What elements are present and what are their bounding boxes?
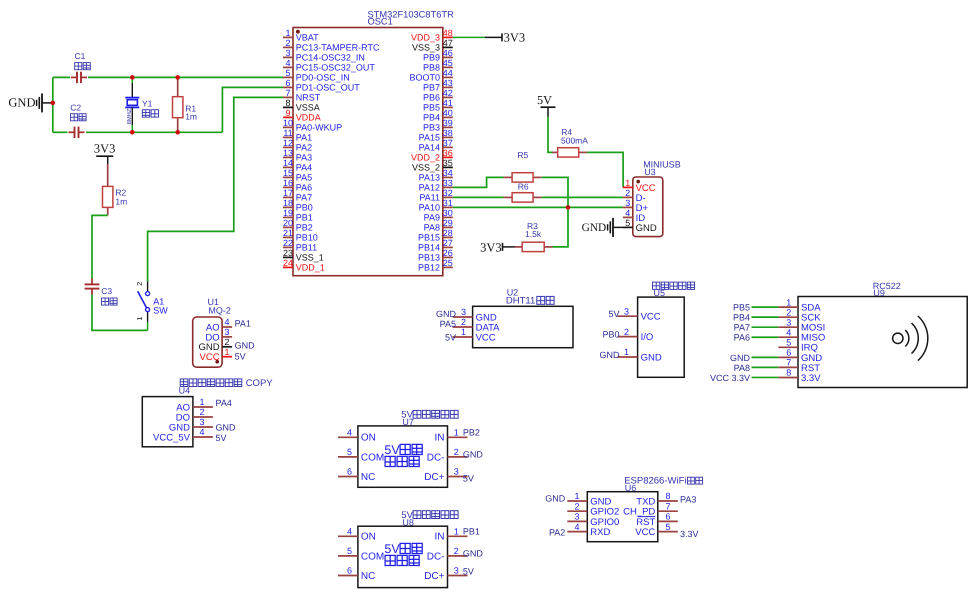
svg-text:43: 43 <box>443 78 453 88</box>
module U4 photoresistor 光敏电阻传感器 COPY <box>142 378 273 447</box>
svg-text:11: 11 <box>283 128 292 138</box>
svg-text:COM: COM <box>361 452 384 463</box>
svg-text:PB8: PB8 <box>423 63 440 73</box>
label C2 value 电容 <box>71 114 87 121</box>
pin 35 VSS_2 <box>412 158 453 173</box>
svg-text:28: 28 <box>443 228 453 238</box>
svg-text:1.5k: 1.5k <box>525 229 542 239</box>
pin 3 DC+ <box>424 566 467 582</box>
pin 1 VCC <box>453 327 496 343</box>
svg-text:PA6: PA6 <box>296 183 312 193</box>
svg-text:5V: 5V <box>384 443 400 457</box>
pin 4 RXD <box>567 522 610 538</box>
pin 5 VCC <box>635 522 678 538</box>
svg-text:33: 33 <box>443 178 453 188</box>
pin 17 PA7 <box>283 188 312 203</box>
svg-text:DC-: DC- <box>427 551 445 562</box>
svg-text:PB15: PB15 <box>418 233 440 243</box>
svg-text:ON: ON <box>361 433 376 444</box>
pin 39 PB3 <box>423 118 453 133</box>
svg-text:23: 23 <box>283 248 293 258</box>
svg-text:1m: 1m <box>115 196 127 206</box>
svg-text:PC14-OSC32_IN: PC14-OSC32_IN <box>296 53 365 63</box>
pin 43 PB7 <box>423 78 453 93</box>
svg-text:3: 3 <box>454 566 459 576</box>
junction <box>130 75 135 80</box>
pin 5 COM <box>338 546 384 562</box>
pin 4 ON <box>338 427 376 443</box>
svg-text:12: 12 <box>283 138 293 148</box>
title 蜂鸣器模块 <box>653 282 695 289</box>
svg-text:PA12: PA12 <box>419 183 440 193</box>
svg-text:PB11: PB11 <box>296 243 317 253</box>
svg-text:6: 6 <box>665 512 670 522</box>
svg-text:PB5: PB5 <box>423 103 440 113</box>
svg-text:GND: GND <box>436 309 457 319</box>
svg-text:PA8: PA8 <box>734 363 750 373</box>
svg-text:GND: GND <box>8 95 35 109</box>
wire C3 to switch bottom <box>92 295 148 331</box>
svg-text:16: 16 <box>283 178 293 188</box>
svg-text:19: 19 <box>283 208 293 218</box>
svg-text:PB6: PB6 <box>423 93 440 103</box>
svg-text:5V: 5V <box>384 542 400 556</box>
svg-text:45: 45 <box>443 58 453 68</box>
pin 1 SDA <box>778 297 821 313</box>
svg-text:VBAT: VBAT <box>296 33 319 43</box>
svg-text:PD1-OSC_OUT: PD1-OSC_OUT <box>296 83 361 93</box>
module U2 DHT11 <box>436 287 573 347</box>
svg-text:Y1: Y1 <box>142 98 153 108</box>
ground GND left power port <box>8 93 52 112</box>
pin 36 VDD_2 <box>411 148 453 163</box>
svg-text:1: 1 <box>624 347 629 357</box>
pin 28 PB15 <box>418 228 453 243</box>
svg-text:4: 4 <box>285 58 290 68</box>
svg-text:PB12: PB12 <box>418 263 440 273</box>
svg-text:PB0: PB0 <box>296 203 313 213</box>
svg-text:9: 9 <box>285 108 290 118</box>
pin 1 AO <box>176 397 213 413</box>
svg-text:3.3V: 3.3V <box>680 529 699 539</box>
module U7 relay 5V继电器模块 <box>338 410 483 488</box>
pin 7 CH_PD <box>623 501 678 517</box>
svg-text:41: 41 <box>443 98 453 108</box>
pin 18 PB0 <box>283 198 313 213</box>
wire VCC 3.3V to pin 8 <box>752 376 779 378</box>
svg-text:32: 32 <box>443 188 453 198</box>
svg-text:PA10: PA10 <box>419 203 440 213</box>
label C3 value 电容 <box>102 298 118 305</box>
capacitor C2 <box>69 127 85 138</box>
ground bars <box>37 93 42 112</box>
power port 3V3 top-left <box>94 141 116 164</box>
svg-text:2: 2 <box>199 407 204 417</box>
svg-text:VCC 3.3V: VCC 3.3V <box>710 373 750 383</box>
svg-text:17: 17 <box>283 188 293 198</box>
pin 47 VSS_3 <box>412 38 453 53</box>
wire PA10 to D+ <box>453 206 623 208</box>
svg-text:40: 40 <box>443 108 453 118</box>
junction <box>130 130 135 135</box>
svg-text:3: 3 <box>574 512 579 522</box>
pin 8 VSSA <box>283 98 320 113</box>
svg-text:30: 30 <box>443 208 453 218</box>
svg-text:6: 6 <box>786 348 791 358</box>
pin 13 PA3 <box>283 148 312 163</box>
svg-text:DHT11: DHT11 <box>506 296 535 307</box>
svg-text:GND: GND <box>545 494 566 504</box>
svg-text:4: 4 <box>574 522 579 532</box>
wire PA6 to pin 4 <box>752 336 779 338</box>
svg-text:PB2: PB2 <box>463 428 480 438</box>
pin 11 PA1 <box>283 128 312 143</box>
svg-text:1: 1 <box>461 327 466 337</box>
svg-text:PB13: PB13 <box>418 253 440 263</box>
svg-text:4: 4 <box>625 208 630 218</box>
svg-text:2: 2 <box>285 38 290 48</box>
svg-text:PB4: PB4 <box>423 113 440 123</box>
svg-text:5V: 5V <box>608 309 619 319</box>
pin 2 DC- <box>427 546 468 562</box>
svg-text:7: 7 <box>285 88 290 98</box>
svg-text:5: 5 <box>347 447 352 457</box>
svg-text:39: 39 <box>443 118 453 128</box>
pin 14 PA4 <box>283 158 312 173</box>
net 3V3 at pin 48 <box>453 31 525 45</box>
pin 23 VSS_1 <box>283 248 324 263</box>
pin 20 PB2 <box>283 218 313 233</box>
pin 3 PC14-OSC32_IN <box>283 48 365 63</box>
svg-text:C1: C1 <box>75 51 86 61</box>
svg-text:PA3: PA3 <box>680 495 696 505</box>
wire PA12 to R5 <box>453 177 504 187</box>
svg-text:2: 2 <box>454 546 459 556</box>
svg-text:7: 7 <box>665 501 670 511</box>
wire R2 to C3 <box>92 215 108 279</box>
svg-text:6: 6 <box>285 78 290 88</box>
wire R4 to VCC <box>587 152 623 187</box>
pin 41 PB5 <box>423 98 453 113</box>
svg-text:4: 4 <box>224 317 229 327</box>
svg-text:NC: NC <box>361 571 375 582</box>
pin 2 GND <box>198 337 232 353</box>
label Y1 value 晶振 <box>142 110 158 117</box>
svg-text:3: 3 <box>285 48 290 58</box>
pin 12 PA2 <box>283 138 312 153</box>
svg-text:NRST: NRST <box>296 93 321 103</box>
pin 7 RST <box>778 358 820 374</box>
svg-text:35: 35 <box>443 158 453 168</box>
svg-text:PA8: PA8 <box>424 223 440 233</box>
wire R5 to junction and R3 <box>542 177 568 247</box>
svg-text:VDD_2: VDD_2 <box>411 153 440 163</box>
svg-text:PB14: PB14 <box>418 243 440 253</box>
svg-text:VSSA: VSSA <box>296 103 320 113</box>
pin 4 MISO <box>778 327 825 343</box>
resistor R1 <box>173 77 183 132</box>
pin 15 PA5 <box>283 168 312 183</box>
svg-text:PA5: PA5 <box>440 319 456 329</box>
svg-text:PB4: PB4 <box>733 313 750 323</box>
svg-text:NC: NC <box>361 472 375 483</box>
svg-text:R5: R5 <box>517 150 528 160</box>
svg-text:OSC1: OSC1 <box>368 17 393 27</box>
svg-text:3: 3 <box>454 467 459 477</box>
pin 34 PA13 <box>419 168 453 183</box>
svg-text:PA6: PA6 <box>734 333 750 343</box>
title U8 cjk <box>413 511 458 519</box>
svg-text:PA7: PA7 <box>296 193 312 203</box>
microcontroller U/OSC1 STM32F103C8T6TR <box>283 10 454 276</box>
svg-text:VCC: VCC <box>200 352 220 363</box>
svg-text:3: 3 <box>625 198 630 208</box>
title 光敏电阻传感器 <box>180 379 242 387</box>
wire OSC_OUT left segment <box>53 131 68 133</box>
resistor R3 <box>515 242 553 251</box>
power port 3V3 at R3 <box>480 240 515 254</box>
pin 38 PA15 <box>419 128 453 143</box>
svg-text:3V3: 3V3 <box>504 31 526 45</box>
svg-text:5: 5 <box>665 522 670 532</box>
junction GND tap <box>51 101 56 106</box>
svg-text:27: 27 <box>443 238 453 248</box>
svg-text:4: 4 <box>347 427 352 437</box>
svg-text:3.3V: 3.3V <box>801 373 821 384</box>
svg-text:13: 13 <box>283 148 293 158</box>
junction D+ <box>566 205 571 210</box>
svg-text:26: 26 <box>443 248 453 258</box>
svg-text:5V: 5V <box>463 473 474 483</box>
module U8 relay 5V继电器模块 <box>338 510 483 588</box>
pin 3 GPIO0 <box>567 512 619 528</box>
svg-text:VSS_2: VSS_2 <box>412 163 440 173</box>
svg-text:2: 2 <box>625 188 630 198</box>
junction <box>175 75 180 80</box>
svg-text:COPY: COPY <box>246 378 274 389</box>
svg-text:14: 14 <box>283 158 293 168</box>
capacitor C3 <box>85 279 100 295</box>
svg-text:R6: R6 <box>518 182 529 192</box>
svg-text:2: 2 <box>135 282 144 286</box>
pin 32 PA11 <box>419 188 452 203</box>
svg-text:46: 46 <box>443 48 453 58</box>
junction <box>175 130 180 135</box>
resistor R2 <box>103 164 113 215</box>
pin 1 VBAT <box>283 28 319 43</box>
pin 1 VCC <box>200 347 233 363</box>
svg-text:PB7: PB7 <box>423 83 440 93</box>
wire PA11 to R6 <box>453 196 504 198</box>
svg-text:COM: COM <box>361 551 384 562</box>
pin 5 PD0-OSC_IN <box>283 68 350 83</box>
wire left vertical <box>52 77 54 132</box>
ground GND at U3 pin 5 <box>582 218 623 237</box>
svg-text:3: 3 <box>786 317 791 327</box>
pin 2 I/O <box>618 327 654 343</box>
svg-text:PD0-OSC_IN: PD0-OSC_IN <box>296 73 350 83</box>
svg-text:RXD: RXD <box>590 527 610 538</box>
pin 29 PA8 <box>424 218 453 233</box>
svg-text:4: 4 <box>199 427 204 437</box>
svg-text:PA11: PA11 <box>419 193 440 203</box>
pin 2 DO <box>176 407 213 423</box>
svg-text:4: 4 <box>786 327 791 337</box>
power port 5V <box>537 93 555 117</box>
svg-text:PA9: PA9 <box>424 213 440 223</box>
svg-text:GND: GND <box>463 548 484 558</box>
pin 3 GND <box>453 307 497 323</box>
svg-text:44: 44 <box>443 68 453 78</box>
label C1 value 电容 <box>75 63 91 70</box>
pin 24 VDD_1 <box>283 258 325 273</box>
svg-text:PA0-WKUP: PA0-WKUP <box>296 123 342 133</box>
svg-text:PB3: PB3 <box>423 123 440 133</box>
svg-text:U4: U4 <box>179 385 191 395</box>
wire GND to pin 6 <box>752 356 779 358</box>
module U9 RC522 <box>710 281 967 388</box>
connector U3 MINIUSB <box>623 160 681 237</box>
svg-text:24: 24 <box>283 258 293 268</box>
svg-text:10: 10 <box>283 118 293 128</box>
svg-text:PA14: PA14 <box>419 143 440 153</box>
svg-text:21: 21 <box>283 228 293 238</box>
pin 4 ON <box>338 526 376 542</box>
title U6 cjk <box>688 477 703 484</box>
svg-text:3: 3 <box>199 417 204 427</box>
svg-text:GND: GND <box>600 350 621 360</box>
wire R6 to D- <box>542 196 623 198</box>
svg-text:DC-: DC- <box>427 452 445 463</box>
svg-text:VCC: VCC <box>641 312 661 323</box>
svg-text:PB1: PB1 <box>463 527 480 537</box>
svg-text:8: 8 <box>285 98 290 108</box>
svg-text:VSS_3: VSS_3 <box>412 43 440 53</box>
pin 6 GND <box>778 348 822 364</box>
svg-text:PA13: PA13 <box>419 173 440 183</box>
pin 3 DO <box>205 327 232 343</box>
svg-text:2: 2 <box>461 317 466 327</box>
RFID antenna symbol <box>893 316 928 361</box>
svg-text:PC13-TAMPER-RTC: PC13-TAMPER-RTC <box>296 43 380 53</box>
svg-text:38: 38 <box>443 128 453 138</box>
crystal Y1 <box>125 77 139 132</box>
svg-text:2: 2 <box>454 447 459 457</box>
wire NRST to switch <box>148 97 283 281</box>
pin 2 PC13-TAMPER-RTC <box>283 38 380 53</box>
pin 7 NRST <box>283 88 321 103</box>
svg-text:2: 2 <box>574 501 579 511</box>
wire 5V to R4 <box>548 117 553 153</box>
pin 2 D- <box>623 188 646 204</box>
svg-text:18: 18 <box>283 198 293 208</box>
svg-text:PB5: PB5 <box>733 303 750 313</box>
pin 5 GND <box>623 218 657 234</box>
module U5 buzzer 蜂鸣器模块 <box>600 282 695 377</box>
svg-text:2: 2 <box>224 337 229 347</box>
pin 10 PA0-WKUP <box>283 118 342 133</box>
svg-text:22: 22 <box>283 238 293 248</box>
svg-text:2: 2 <box>624 327 629 337</box>
svg-text:31: 31 <box>443 198 453 208</box>
svg-text:1: 1 <box>786 297 791 307</box>
svg-text:3: 3 <box>461 307 466 317</box>
svg-text:PA2: PA2 <box>296 143 312 153</box>
svg-text:DC+: DC+ <box>424 472 444 483</box>
pin 31 PA10 <box>419 198 453 213</box>
svg-text:29: 29 <box>443 218 453 228</box>
wire PB5 to pin 1 <box>752 306 779 308</box>
pin 6 NC <box>338 467 375 483</box>
svg-text:VCC: VCC <box>635 527 655 538</box>
svg-text:VDDA: VDDA <box>296 113 321 123</box>
svg-text:3: 3 <box>624 306 629 316</box>
svg-text:5: 5 <box>786 338 791 348</box>
svg-text:1: 1 <box>285 28 290 38</box>
wire OSC_OUT bottom <box>86 131 222 133</box>
wire OSC_IN left segment <box>53 76 70 78</box>
pin 30 PA9 <box>424 208 453 223</box>
svg-text:3: 3 <box>224 327 229 337</box>
svg-text:1: 1 <box>135 317 144 321</box>
svg-text:GND: GND <box>582 222 607 234</box>
svg-text:PA3: PA3 <box>296 153 312 163</box>
pin 6 NC <box>338 566 375 582</box>
wire PA8 to pin 7 <box>752 366 779 368</box>
svg-text:PA2: PA2 <box>549 528 565 538</box>
svg-text:C2: C2 <box>70 102 81 112</box>
svg-text:PB1: PB1 <box>296 213 313 223</box>
wire OSC_OUT to pin 6 <box>222 87 283 132</box>
pin 21 PB10 <box>283 228 318 243</box>
svg-text:47: 47 <box>443 38 453 48</box>
wire OSC_IN to pin 5 <box>88 76 283 78</box>
resistor R5 <box>504 173 542 182</box>
svg-text:5V: 5V <box>537 93 552 107</box>
switch A1 SW <box>135 282 150 331</box>
pin 22 PB11 <box>283 238 317 253</box>
module U6 ESP8266-WiFi <box>545 476 702 542</box>
svg-text:42: 42 <box>443 88 453 98</box>
svg-text:1: 1 <box>224 347 229 357</box>
svg-text:25: 25 <box>443 258 453 268</box>
sensor U1 MQ-2 <box>193 297 255 367</box>
pin 3 MOSI <box>778 317 825 333</box>
svg-text:GND: GND <box>235 340 256 350</box>
pin 8 TXD <box>636 491 678 507</box>
svg-text:PA15: PA15 <box>419 133 440 143</box>
pin 9 VDDA <box>283 108 321 123</box>
svg-text:VSS_1: VSS_1 <box>296 253 324 263</box>
resistor R6 <box>504 193 542 202</box>
svg-text:PA4: PA4 <box>296 163 312 173</box>
pin 3 D+ <box>623 198 649 214</box>
svg-text:U3: U3 <box>644 167 656 177</box>
svg-text:7: 7 <box>786 358 791 368</box>
svg-text:ON: ON <box>361 532 376 543</box>
svg-text:MQ-2: MQ-2 <box>208 305 231 315</box>
svg-text:8: 8 <box>665 491 670 501</box>
svg-text:34: 34 <box>443 168 453 178</box>
pin 4 ID <box>623 208 645 224</box>
svg-text:GND: GND <box>216 422 237 432</box>
wire PB4 to pin 2 <box>752 316 779 318</box>
svg-text:I/O: I/O <box>641 332 654 343</box>
svg-text:8MHZ: 8MHZ <box>126 108 133 124</box>
svg-text:PA7: PA7 <box>734 323 750 333</box>
pin 1 GND <box>618 347 662 363</box>
pin 1 IN <box>435 427 468 443</box>
